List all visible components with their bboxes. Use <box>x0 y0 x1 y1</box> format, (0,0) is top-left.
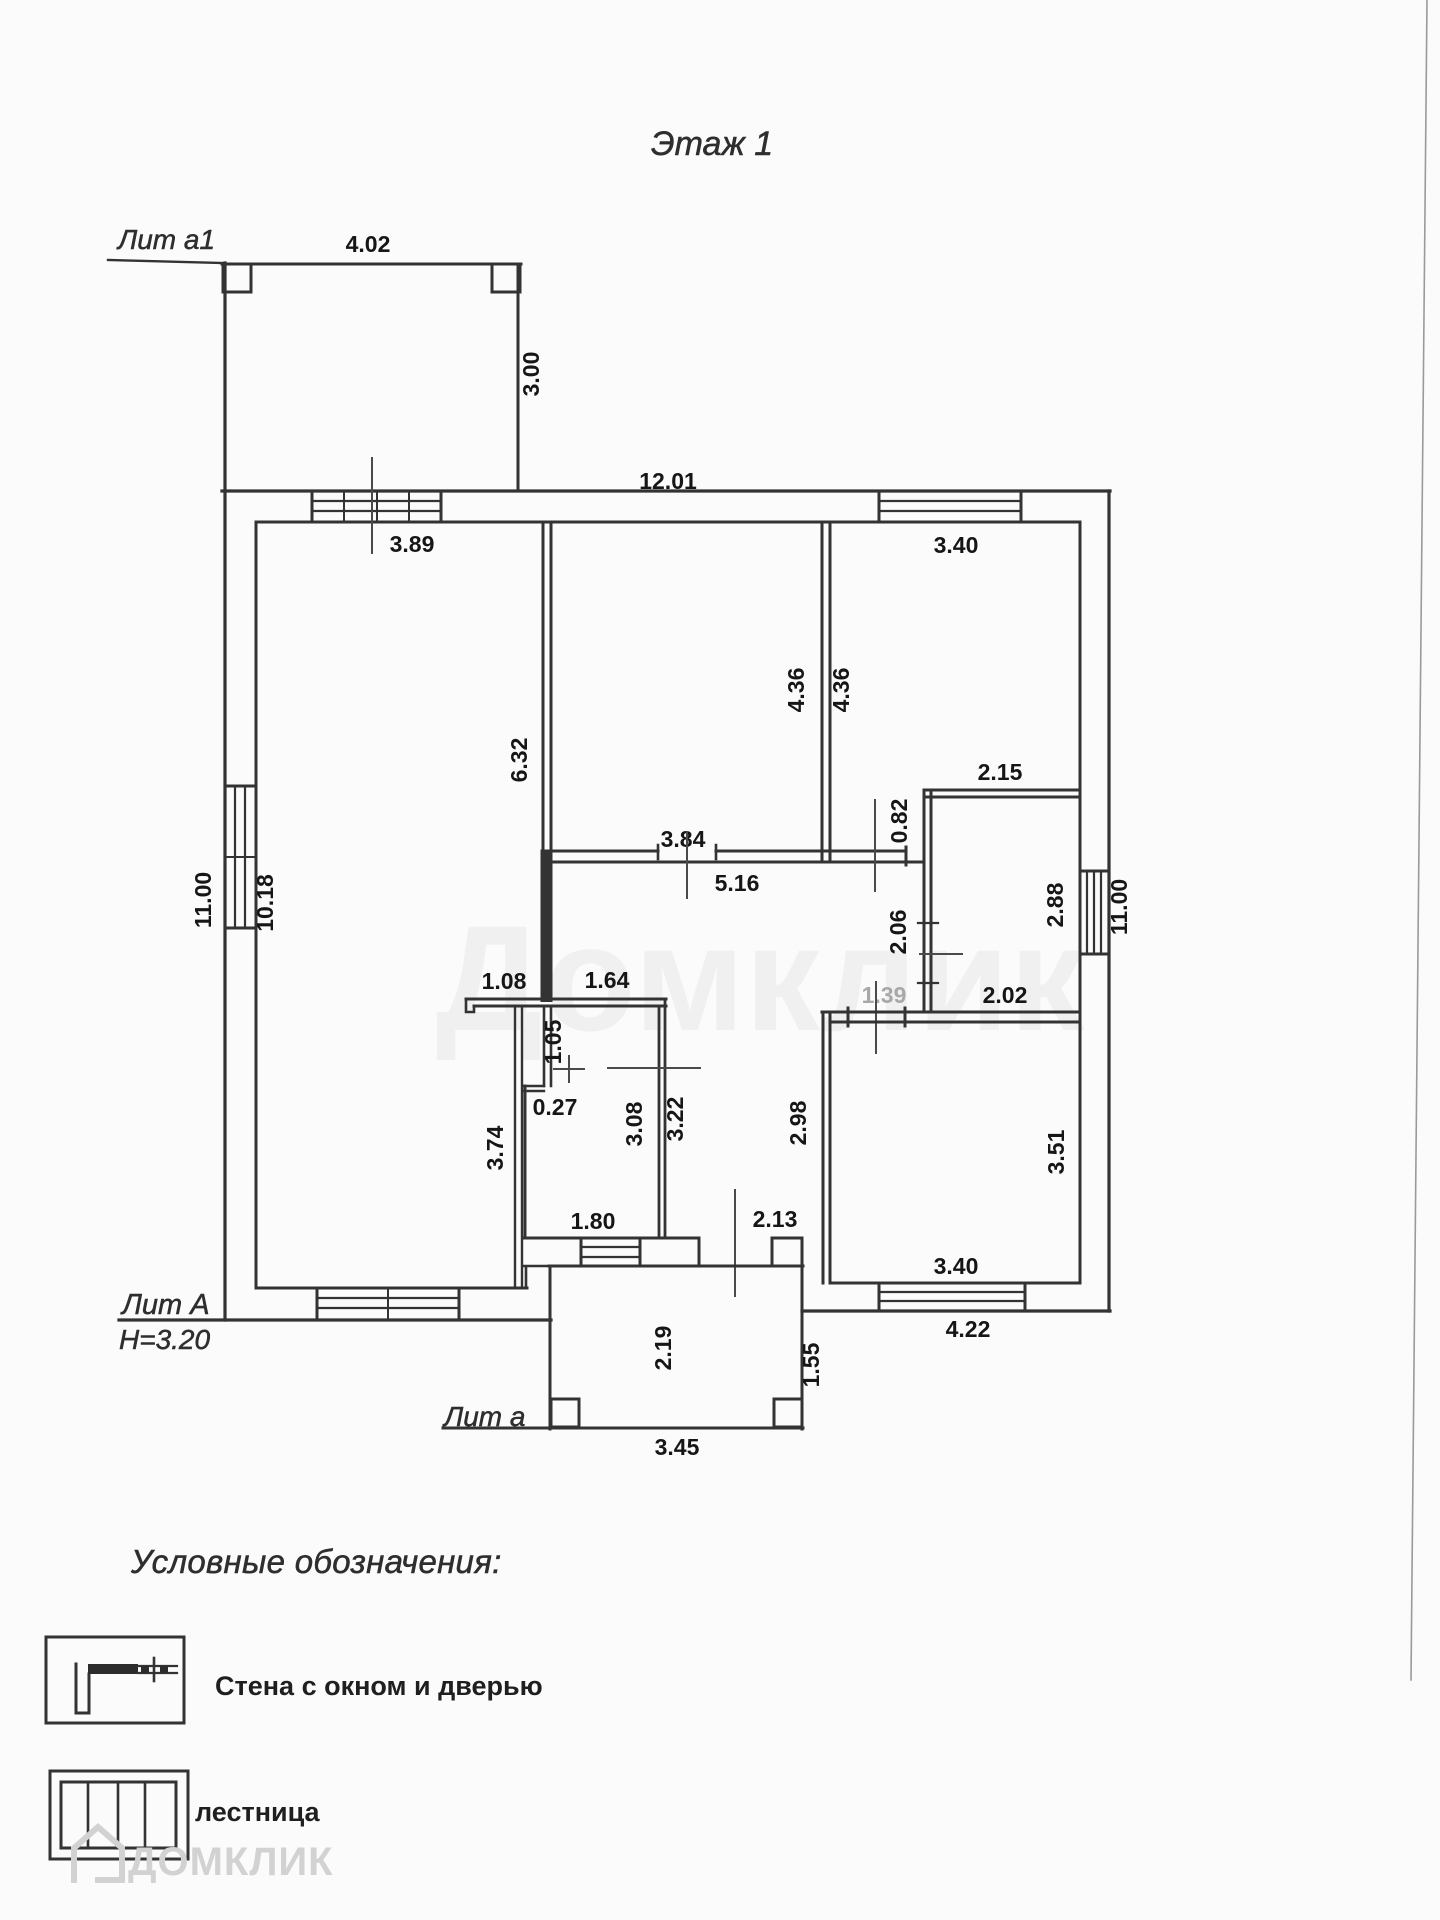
svg-text:0.82: 0.82 <box>886 799 912 844</box>
svg-text:3.74: 3.74 <box>482 1125 508 1170</box>
svg-text:4.02: 4.02 <box>346 231 391 257</box>
legend wall symbol vertical part <box>76 1664 89 1713</box>
svg-text:Н=3.20: Н=3.20 <box>119 1324 210 1355</box>
svg-text:2.88: 2.88 <box>1042 882 1068 927</box>
legend wall symbol thick bar <box>88 1664 138 1674</box>
svg-text:2.02: 2.02 <box>983 982 1028 1008</box>
door jamb ticks on 2.88 wall <box>918 923 938 983</box>
svg-text:Лит а: Лит а <box>442 1401 525 1432</box>
svg-text:0.27: 0.27 <box>533 1094 578 1120</box>
svg-text:Лит а1: Лит а1 <box>116 224 215 255</box>
legend window tick <box>153 1658 156 1681</box>
svg-text:Домклик: Домклик <box>436 894 1086 1062</box>
bathroom bottom wall <box>524 1237 699 1240</box>
wall segment right of door <box>772 1237 802 1240</box>
svg-text:Этаж 1: Этаж 1 <box>651 125 773 163</box>
porch a right wall <box>801 1238 804 1429</box>
legend box wall-with-window <box>46 1637 184 1723</box>
bottom outer wall right section <box>802 1309 1110 1312</box>
window bottom-left wall <box>317 1288 459 1320</box>
big room right wall lower <box>515 1006 522 1288</box>
window top-left in top wall <box>312 491 441 522</box>
watermark house logo <box>74 1827 122 1880</box>
svg-text:3.51: 3.51 <box>1043 1129 1069 1174</box>
window right wall <box>1080 871 1109 954</box>
bottom inner wall right section <box>831 1282 1080 1285</box>
dimension tick 1.39 <box>875 982 877 1053</box>
porch a corner post right <box>774 1399 802 1427</box>
svg-text:1.64: 1.64 <box>585 967 630 993</box>
porch a1 corner post right <box>492 264 520 292</box>
svg-text:Стена с окном и дверью: Стена с окном и дверью <box>215 1671 543 1701</box>
legend window dashes <box>141 1666 149 1673</box>
svg-text:4.36: 4.36 <box>783 668 809 713</box>
svg-text:11.00: 11.00 <box>190 872 216 928</box>
legend box stairs <box>50 1771 188 1859</box>
svg-text:Лит А: Лит А <box>120 1289 210 1321</box>
legend stairs treads <box>88 1782 145 1848</box>
window bottom-right wall <box>879 1283 1025 1311</box>
exit door jambs 2.13 <box>699 1238 772 1266</box>
dimension tick at window 3.89 <box>371 458 373 553</box>
dimension tick 0.82 <box>874 800 876 891</box>
porch a bottom wall (with Лит а underline extension) <box>443 1427 803 1430</box>
scan page edge line right <box>1411 0 1427 1680</box>
bathroom right wall <box>659 999 665 1238</box>
svg-text:1.55: 1.55 <box>798 1342 824 1387</box>
dimension line crossing bathroom wall <box>608 1067 700 1069</box>
dimension tick 2.13 <box>734 1190 736 1296</box>
middle room bottom wall end cap <box>905 847 908 865</box>
svg-text:ДОМКЛИК: ДОМКЛИК <box>128 1840 334 1884</box>
stairs below bathroom <box>581 1238 640 1266</box>
underline of Лит a1 <box>108 260 223 263</box>
porch a left wall <box>549 1266 552 1429</box>
watermark center (faint Domklik) <box>436 894 1086 1062</box>
dimension tick 2.06 <box>920 953 962 955</box>
bedroom left wall <box>823 1012 830 1283</box>
svg-text:10.18: 10.18 <box>252 874 278 932</box>
legend window symbol lines <box>138 1666 177 1673</box>
svg-text:4.22: 4.22 <box>946 1316 991 1342</box>
svg-text:1.80: 1.80 <box>571 1208 616 1234</box>
niche wall 1.05 <box>544 1006 551 1086</box>
window left wall <box>225 786 256 928</box>
hall top wall left hook <box>466 999 474 1012</box>
wall left of room 2.88 <box>924 790 931 1012</box>
middle room bottom wall lower line <box>542 861 922 864</box>
svg-text:1.39: 1.39 <box>862 982 907 1008</box>
svg-text:2.98: 2.98 <box>785 1100 811 1145</box>
step wall left of porch <box>524 1266 551 1288</box>
svg-text:2.06: 2.06 <box>885 910 911 955</box>
window top-right in top wall <box>879 491 1021 522</box>
bedroom top wall <box>822 1012 1080 1022</box>
door jambs in middle room bottom wall <box>658 845 716 859</box>
interior wall big-room right upper (double) <box>543 522 551 852</box>
dimension cross small left <box>554 1056 584 1082</box>
svg-text:11.00: 11.00 <box>1106 879 1132 935</box>
svg-text:лестница: лестница <box>195 1797 321 1827</box>
svg-text:3.08: 3.08 <box>621 1101 647 1146</box>
svg-text:3.22: 3.22 <box>662 1097 688 1142</box>
hall top wall 1.08/1.64 <box>466 999 666 1006</box>
bedroom top wall door jambs <box>848 1008 905 1026</box>
svg-text:5.16: 5.16 <box>715 870 760 896</box>
small room 2.15 top wall <box>924 790 1080 797</box>
svg-text:12.01: 12.01 <box>639 468 697 494</box>
svg-text:6.32: 6.32 <box>506 738 532 783</box>
svg-text:2.15: 2.15 <box>978 759 1023 785</box>
bathroom left wall <box>524 1086 527 1238</box>
svg-text:3.45: 3.45 <box>655 1434 700 1460</box>
bottom outer wall left section (with Лит А underline extension) <box>119 1318 551 1321</box>
niche jog wall <box>524 1086 544 1091</box>
porch a1 corner post left <box>223 264 251 292</box>
bottom inner wall left section <box>256 1287 527 1290</box>
left outer wall (porch + building) <box>223 263 226 1320</box>
porch a (bottom) top wall <box>549 1265 803 1268</box>
svg-text:4.36: 4.36 <box>828 668 854 713</box>
right inner wall line <box>1079 522 1082 1283</box>
svg-text:3.40: 3.40 <box>934 1253 979 1279</box>
porch a corner post left <box>551 1399 579 1427</box>
porch a1 top wall <box>222 263 521 266</box>
middle room bottom wall upper line with door opening <box>542 850 906 853</box>
right outer wall <box>1107 491 1110 1311</box>
building top inner wall line <box>256 521 1080 524</box>
interior wall dark filled segment <box>541 851 553 1002</box>
interior wall between middle and right top rooms <box>822 522 830 862</box>
svg-text:2.19: 2.19 <box>650 1326 676 1371</box>
svg-text:3.40: 3.40 <box>934 532 979 558</box>
porch a1 right wall <box>517 264 520 491</box>
svg-text:3.89: 3.89 <box>390 531 435 557</box>
svg-text:Условные обозначения:: Условные обозначения: <box>130 1543 502 1580</box>
svg-text:1.08: 1.08 <box>482 968 527 994</box>
left inner wall line <box>255 522 258 1288</box>
svg-text:1.05: 1.05 <box>540 1019 566 1064</box>
dimension tick between 3.84 and 5.16 <box>686 832 688 898</box>
legend stairs rect <box>61 1782 176 1848</box>
svg-text:3.84: 3.84 <box>661 826 706 852</box>
svg-text:3.00: 3.00 <box>518 352 544 397</box>
svg-text:2.13: 2.13 <box>753 1206 798 1232</box>
building top outer wall <box>222 489 1110 492</box>
